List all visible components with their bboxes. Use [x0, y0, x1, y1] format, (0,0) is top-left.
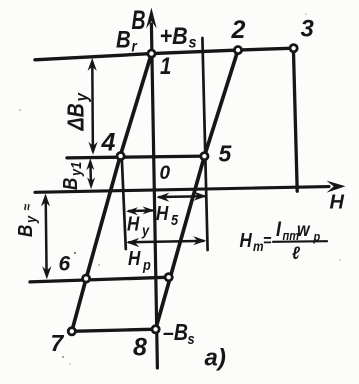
node 2 [234, 47, 241, 54]
rotated label By1 [59, 162, 85, 190]
node junction of lower chord with branch 5-8 [165, 274, 172, 281]
svg-text:s: s [189, 34, 197, 52]
node 3 [290, 45, 297, 52]
svg-text:5: 5 [171, 211, 178, 228]
node 6 [83, 275, 90, 282]
svg-text:7: 7 [51, 330, 65, 356]
svg-text:H: H [330, 192, 345, 214]
rotated label By= (left of lower chord) [14, 203, 40, 237]
lower chord line through point 6 [30, 277, 169, 282]
dimension arrow By= [41, 194, 52, 280]
svg-text:–B: –B [163, 320, 188, 346]
svg-text:I: I [276, 218, 281, 242]
node 4 [117, 153, 124, 160]
formula Hm = Ipm wp / l [240, 218, 328, 264]
bottom line 7-8 (-Bs level) [72, 329, 156, 331]
svg-text:р: р [142, 256, 151, 273]
svg-text:0: 0 [160, 163, 171, 184]
label Hp [128, 247, 151, 274]
svg-text:=: = [263, 232, 271, 250]
svg-text:H: H [127, 212, 140, 235]
svg-text:H: H [128, 247, 141, 270]
svg-text:m: m [253, 238, 264, 254]
svg-text:у: у [71, 92, 91, 102]
vertical extension line below point 4 [122, 158, 126, 249]
node 8 [152, 326, 159, 333]
svg-text:s: s [188, 330, 195, 347]
svg-text:ΔB: ΔB [63, 103, 89, 131]
svg-text:3: 3 [301, 16, 315, 43]
svg-text:w: w [297, 219, 311, 241]
svg-text:B: B [59, 178, 82, 190]
node 7 [68, 328, 75, 335]
vertical extension line through point 5 [202, 38, 207, 250]
dimension arrow By1 [86, 158, 95, 189]
svg-text:у: у [22, 215, 39, 224]
svg-text:H: H [156, 202, 169, 225]
label Hy [127, 212, 150, 239]
svg-text:а): а) [205, 345, 226, 372]
svg-text:B: B [132, 5, 146, 35]
label H5 [156, 202, 178, 229]
svg-text:B: B [116, 26, 131, 53]
svg-text:у: у [141, 221, 150, 238]
svg-text:6: 6 [59, 253, 71, 276]
svg-text:1: 1 [160, 52, 171, 79]
label +Bs [160, 22, 197, 52]
vertical line from point 3 down to H axis [293, 48, 297, 191]
dimension arrow H5 [156, 192, 206, 202]
B axis [146, 8, 157, 369]
left slanted branch 1-4-6-7 [72, 54, 152, 332]
dimension arrow dBy (delta B y) [88, 58, 98, 155]
label -Bs [163, 320, 195, 348]
right slanted branch 2-5-8 [156, 50, 238, 329]
svg-text:4: 4 [101, 129, 116, 157]
node 1 [148, 50, 155, 57]
svg-text:B: B [14, 225, 37, 237]
svg-text:2: 2 [231, 16, 246, 44]
H axis [35, 181, 346, 193]
dimension arrow Hp [126, 236, 206, 247]
rotated label dBy (left, between Br line and chord 4-5) [63, 92, 92, 131]
svg-text:H: H [240, 229, 253, 252]
svg-text:5: 5 [219, 141, 233, 167]
svg-text:у1: у1 [67, 162, 84, 177]
svg-text:ℓ: ℓ [292, 243, 300, 263]
middle chord line through points 4 and 5 [67, 156, 204, 158]
svg-text:8: 8 [133, 334, 147, 362]
label Br [116, 26, 138, 56]
dimension arrow Hy [126, 206, 155, 215]
svg-text:≈: ≈ [19, 203, 35, 210]
node 5 [201, 153, 208, 160]
top saturation line through points 1,2,3 (Br / +Bs level) [35, 48, 294, 60]
